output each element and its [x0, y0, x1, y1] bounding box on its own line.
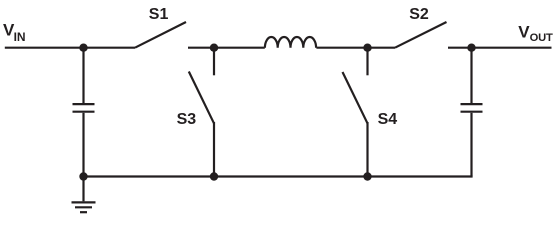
svg-text:S3: S3 [177, 111, 197, 128]
svg-text:IN: IN [14, 30, 26, 44]
svg-text:S4: S4 [378, 111, 398, 128]
svg-text:S2: S2 [409, 6, 429, 23]
svg-text:S1: S1 [149, 6, 169, 23]
svg-text:OUT: OUT [530, 32, 553, 44]
svg-text:V: V [518, 23, 530, 42]
